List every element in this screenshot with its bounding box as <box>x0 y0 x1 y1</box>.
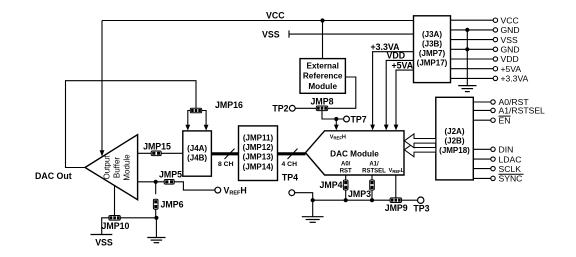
wire ground node to ground <box>155 218 157 238</box>
ground symbol (bottom) <box>302 217 324 223</box>
svg-text:+5VA: +5VA <box>392 60 414 70</box>
label (JMP11) (JMP12) (JMP13) (JMP14) <box>243 134 274 172</box>
pin +3.3VA (J3) <box>451 74 529 84</box>
svg-text:VDD: VDD <box>387 51 406 61</box>
wire JMP8 center to VrefH node <box>322 111 344 119</box>
pin label A0/RST <box>340 162 352 175</box>
svg-text:VCC: VCC <box>501 15 519 25</box>
junction TP4/ground <box>311 198 315 202</box>
junction JMP3 <box>370 198 374 202</box>
svg-text:RSTSEL: RSTSEL <box>362 168 386 174</box>
svg-text:DAC Out: DAC Out <box>35 171 72 181</box>
jumper JMP10 <box>109 216 120 221</box>
svg-text:(JMP13): (JMP13) <box>243 153 274 162</box>
svg-text:A1/RSTSEL: A1/RSTSEL <box>499 106 546 116</box>
pin GND (J3) <box>451 25 520 35</box>
DAC module block <box>306 131 405 175</box>
terminal VrefH <box>215 187 221 193</box>
jumper JMP3 <box>370 180 375 190</box>
junction JMP5 node <box>154 180 158 184</box>
svg-text:JMP9: JMP9 <box>385 203 408 213</box>
junction JMP4 <box>344 198 348 202</box>
svg-text:(JMP17): (JMP17) <box>417 58 448 67</box>
ground symbol (left) <box>147 238 165 243</box>
svg-text:(J3A): (J3A) <box>422 30 442 39</box>
jumper JMP4 <box>343 180 348 190</box>
jumper JMP9 <box>390 198 401 203</box>
label (J2A) (J2B) (JMP18) <box>439 127 470 155</box>
svg-text:External: External <box>307 61 339 70</box>
jumper JMP5 <box>164 180 174 185</box>
svg-text:(J3B): (J3B) <box>422 40 442 49</box>
pin VDD (J3) <box>451 54 519 64</box>
wire JMP8 to external reference module <box>328 77 356 108</box>
svg-text:DIN: DIN <box>499 145 514 155</box>
svg-text:VREFL: VREFL <box>389 168 405 174</box>
jumper JMP8 <box>316 106 327 111</box>
svg-text:(JMP18): (JMP18) <box>439 146 470 155</box>
bus arrow control signals into DAC <box>404 134 436 148</box>
svg-text:JMP3: JMP3 <box>348 189 371 199</box>
svg-text:SYNC: SYNC <box>499 174 523 184</box>
svg-text:TP7: TP7 <box>351 114 367 124</box>
wire JMP5 node to JMP6 <box>155 182 157 194</box>
wire JMP3 to bottom rail <box>371 190 373 200</box>
supply symbol VSS <box>91 235 113 248</box>
svg-text:JMP8: JMP8 <box>311 96 334 106</box>
wire GND bus (J3) <box>465 28 469 86</box>
svg-text:(JMP7): (JMP7) <box>419 49 446 58</box>
svg-text:+3.3VA: +3.3VA <box>501 74 529 84</box>
connector J4 <box>183 131 212 176</box>
connector J3 <box>414 16 451 83</box>
svg-text:TP4: TP4 <box>282 172 298 182</box>
wire DAC A0/RST pin to JMP4 <box>345 175 347 180</box>
junction VrefH node <box>334 117 338 121</box>
svg-text:(J4B): (J4B) <box>187 154 207 163</box>
pin +5VA (J3) <box>451 64 522 74</box>
svg-text:VSS: VSS <box>501 35 518 45</box>
wire JMP10 to VSS <box>102 218 109 235</box>
test point TP7 <box>344 116 350 122</box>
pin VCC (J3) <box>451 15 519 25</box>
connector JMP11-JMP14 <box>239 126 278 181</box>
junction ground node <box>154 216 158 220</box>
svg-text:Reference: Reference <box>303 72 343 81</box>
wire VSS rail <box>289 30 414 37</box>
svg-text:(J4A): (J4A) <box>187 144 207 153</box>
label (J3A) (J3B) (JMP7) (JMP17) <box>417 30 448 67</box>
svg-text:VREFH: VREFH <box>330 134 346 140</box>
svg-text:+5VA: +5VA <box>501 64 522 74</box>
pin VSS (J3) <box>451 35 518 45</box>
wire JMP15 <box>138 152 183 154</box>
svg-text:VDD: VDD <box>501 54 519 64</box>
svg-text:(J2A): (J2A) <box>444 127 464 136</box>
svg-text:VSS: VSS <box>262 30 280 40</box>
svg-text:VREFH: VREFH <box>224 185 247 196</box>
label External Reference Module <box>303 61 343 91</box>
wire JMP10 to ground node <box>121 217 157 219</box>
rail VDD <box>384 60 414 130</box>
wire output buffer to JMP10 <box>114 186 116 216</box>
svg-text:A0/: A0/ <box>341 162 351 168</box>
svg-text:DAC Module: DAC Module <box>330 150 379 159</box>
pin DIN (J2) <box>473 145 513 155</box>
svg-text:VSS: VSS <box>95 238 113 248</box>
svg-text:JMP10: JMP10 <box>102 221 130 231</box>
svg-text:8 CH: 8 CH <box>218 161 234 168</box>
svg-text:TP3: TP3 <box>413 203 429 213</box>
svg-text:JMP4: JMP4 <box>320 180 343 190</box>
bus arrow serial signals into DAC <box>404 143 436 157</box>
wire VCC drop to external reference module <box>322 21 324 59</box>
svg-text:Module: Module <box>123 154 132 181</box>
svg-text:TP2: TP2 <box>272 104 288 114</box>
svg-text:A1/: A1/ <box>369 162 379 168</box>
svg-text:GND: GND <box>501 45 520 55</box>
wire output buffer to JMP5 node <box>138 181 164 183</box>
wire JMP6 to ground node <box>155 209 157 217</box>
svg-text:(JMP11): (JMP11) <box>243 134 274 143</box>
svg-text:(JMP14): (JMP14) <box>243 163 274 172</box>
junction on VCC rail <box>320 18 324 22</box>
svg-text:(J2B): (J2B) <box>444 137 464 146</box>
bus 8 CH <box>211 149 238 159</box>
pin LDAC (J2) <box>473 154 521 164</box>
svg-text:JMP15: JMP15 <box>143 141 171 151</box>
pin SCLK (J2) <box>473 164 521 174</box>
wire JMP9 to TP3 <box>402 199 418 201</box>
jumper JMP6 <box>153 199 158 209</box>
label Output Buffer Module <box>103 154 132 181</box>
svg-text:(JMP12): (JMP12) <box>243 143 274 152</box>
svg-text:Buffer: Buffer <box>113 157 122 179</box>
pin A0/RST (J2) <box>473 97 529 107</box>
wire JMP16 left arm into J4 <box>185 111 190 131</box>
svg-text:Module: Module <box>308 82 337 91</box>
wire ground stem (bottom) <box>312 200 314 217</box>
svg-text:EN: EN <box>499 115 511 125</box>
ground symbol (J3) <box>458 86 476 92</box>
bus 4 CH <box>278 149 306 159</box>
pin label A1/RSTSEL <box>362 162 386 175</box>
op-amp U1 output buffer module triangle <box>85 135 138 200</box>
svg-text:JMP5: JMP5 <box>159 169 182 179</box>
svg-text:SCLK: SCLK <box>499 164 522 174</box>
wire VCC rail <box>102 20 414 22</box>
wire TP4 to bottom rail <box>295 193 313 201</box>
wire VrefH arrow into DAC module <box>334 119 339 130</box>
pin SYNC (J2) with overline <box>473 174 523 184</box>
svg-text:VCC: VCC <box>266 11 285 21</box>
jumper JMP16 <box>190 108 201 113</box>
wire TP2 to JMP8 <box>295 107 316 109</box>
wire JMP5 to VrefH terminal <box>174 182 215 190</box>
rail +3.3VA <box>370 52 413 131</box>
test point TP2 <box>289 105 295 111</box>
wire DAC A1/RSTSEL pin to JMP3 <box>371 175 373 180</box>
rail +5VA <box>394 70 414 130</box>
external reference module box <box>300 59 345 94</box>
pin A1/RSTSEL (J2) <box>473 106 545 116</box>
wire VCC drop to output buffer with arrowhead <box>100 21 105 157</box>
pin GND2 (J3) <box>451 45 520 55</box>
wire feedback from DAC Out up and over to JMP16 <box>66 81 197 168</box>
wire DAC VrefL pin to JMP9 <box>395 175 397 198</box>
wire JMP4 to bottom rail <box>345 190 347 200</box>
svg-text:LDAC: LDAC <box>499 154 522 164</box>
jumper JMP15 <box>151 151 161 156</box>
wire JMP16 right arm into J4 <box>202 111 209 131</box>
svg-text:GND: GND <box>501 25 520 35</box>
svg-text:JMP6: JMP6 <box>161 200 184 210</box>
svg-text:JMP16: JMP16 <box>215 100 243 110</box>
svg-text:4 CH: 4 CH <box>282 161 298 168</box>
svg-text:RST: RST <box>340 168 352 174</box>
wire bottom rail <box>313 199 391 201</box>
svg-text:Output: Output <box>103 155 112 180</box>
label (J4A) (J4B) <box>187 144 207 162</box>
connector J2 <box>436 97 474 180</box>
pin EN (J2) with overline <box>473 115 510 125</box>
test point TP3 <box>418 197 424 203</box>
test point TP4 <box>289 190 295 196</box>
